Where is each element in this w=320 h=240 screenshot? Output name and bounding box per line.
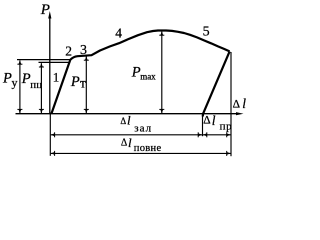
dimension line delta-l_zal — [51, 132, 203, 137]
svg-text:P: P — [40, 2, 50, 18]
level line P_pc — [39, 61, 70, 63]
svg-text:P: P — [21, 71, 31, 87]
dimension line P_pc — [39, 63, 44, 113]
svg-text:P: P — [131, 65, 141, 81]
svg-text:P: P — [2, 71, 12, 87]
svg-text:l: l — [212, 113, 216, 128]
svg-text:пц: пц — [30, 79, 42, 91]
svg-text:1: 1 — [53, 70, 60, 85]
svg-text:Δ: Δ — [203, 115, 210, 127]
dimension line delta-l_pr — [203, 132, 231, 137]
svg-text:5: 5 — [203, 24, 210, 39]
svg-text:3: 3 — [80, 43, 87, 58]
svg-text:у: у — [12, 75, 18, 89]
delta-l axis — [16, 112, 244, 115]
main curve — [51, 31, 229, 114]
dimension line P_t — [84, 56, 89, 113]
dimension line P_max — [159, 31, 164, 113]
svg-text:Δ: Δ — [120, 116, 126, 126]
svg-text:4: 4 — [115, 26, 122, 41]
dimension line delta-l_povne — [51, 151, 231, 156]
fracture foot extension line — [202, 114, 204, 136]
svg-text:max: max — [140, 72, 156, 82]
svg-text:P: P — [70, 74, 80, 90]
dimension line P_u — [17, 60, 22, 113]
svg-text:l: l — [242, 96, 246, 111]
svg-text:т: т — [80, 75, 86, 90]
svg-text:l: l — [128, 135, 132, 150]
fracture line — [203, 51, 230, 116]
svg-text:Δ: Δ — [121, 138, 128, 149]
P axis — [48, 11, 51, 114]
svg-text:зал: зал — [134, 123, 152, 135]
level line P_u — [17, 59, 70, 61]
svg-text:2: 2 — [65, 43, 72, 58]
svg-text:l: l — [127, 112, 131, 127]
svg-text:пр: пр — [220, 121, 233, 133]
svg-text:повне: повне — [134, 143, 162, 154]
origin extension line — [49, 114, 51, 156]
right extension line — [230, 52, 232, 156]
svg-text:Δ: Δ — [233, 99, 240, 111]
